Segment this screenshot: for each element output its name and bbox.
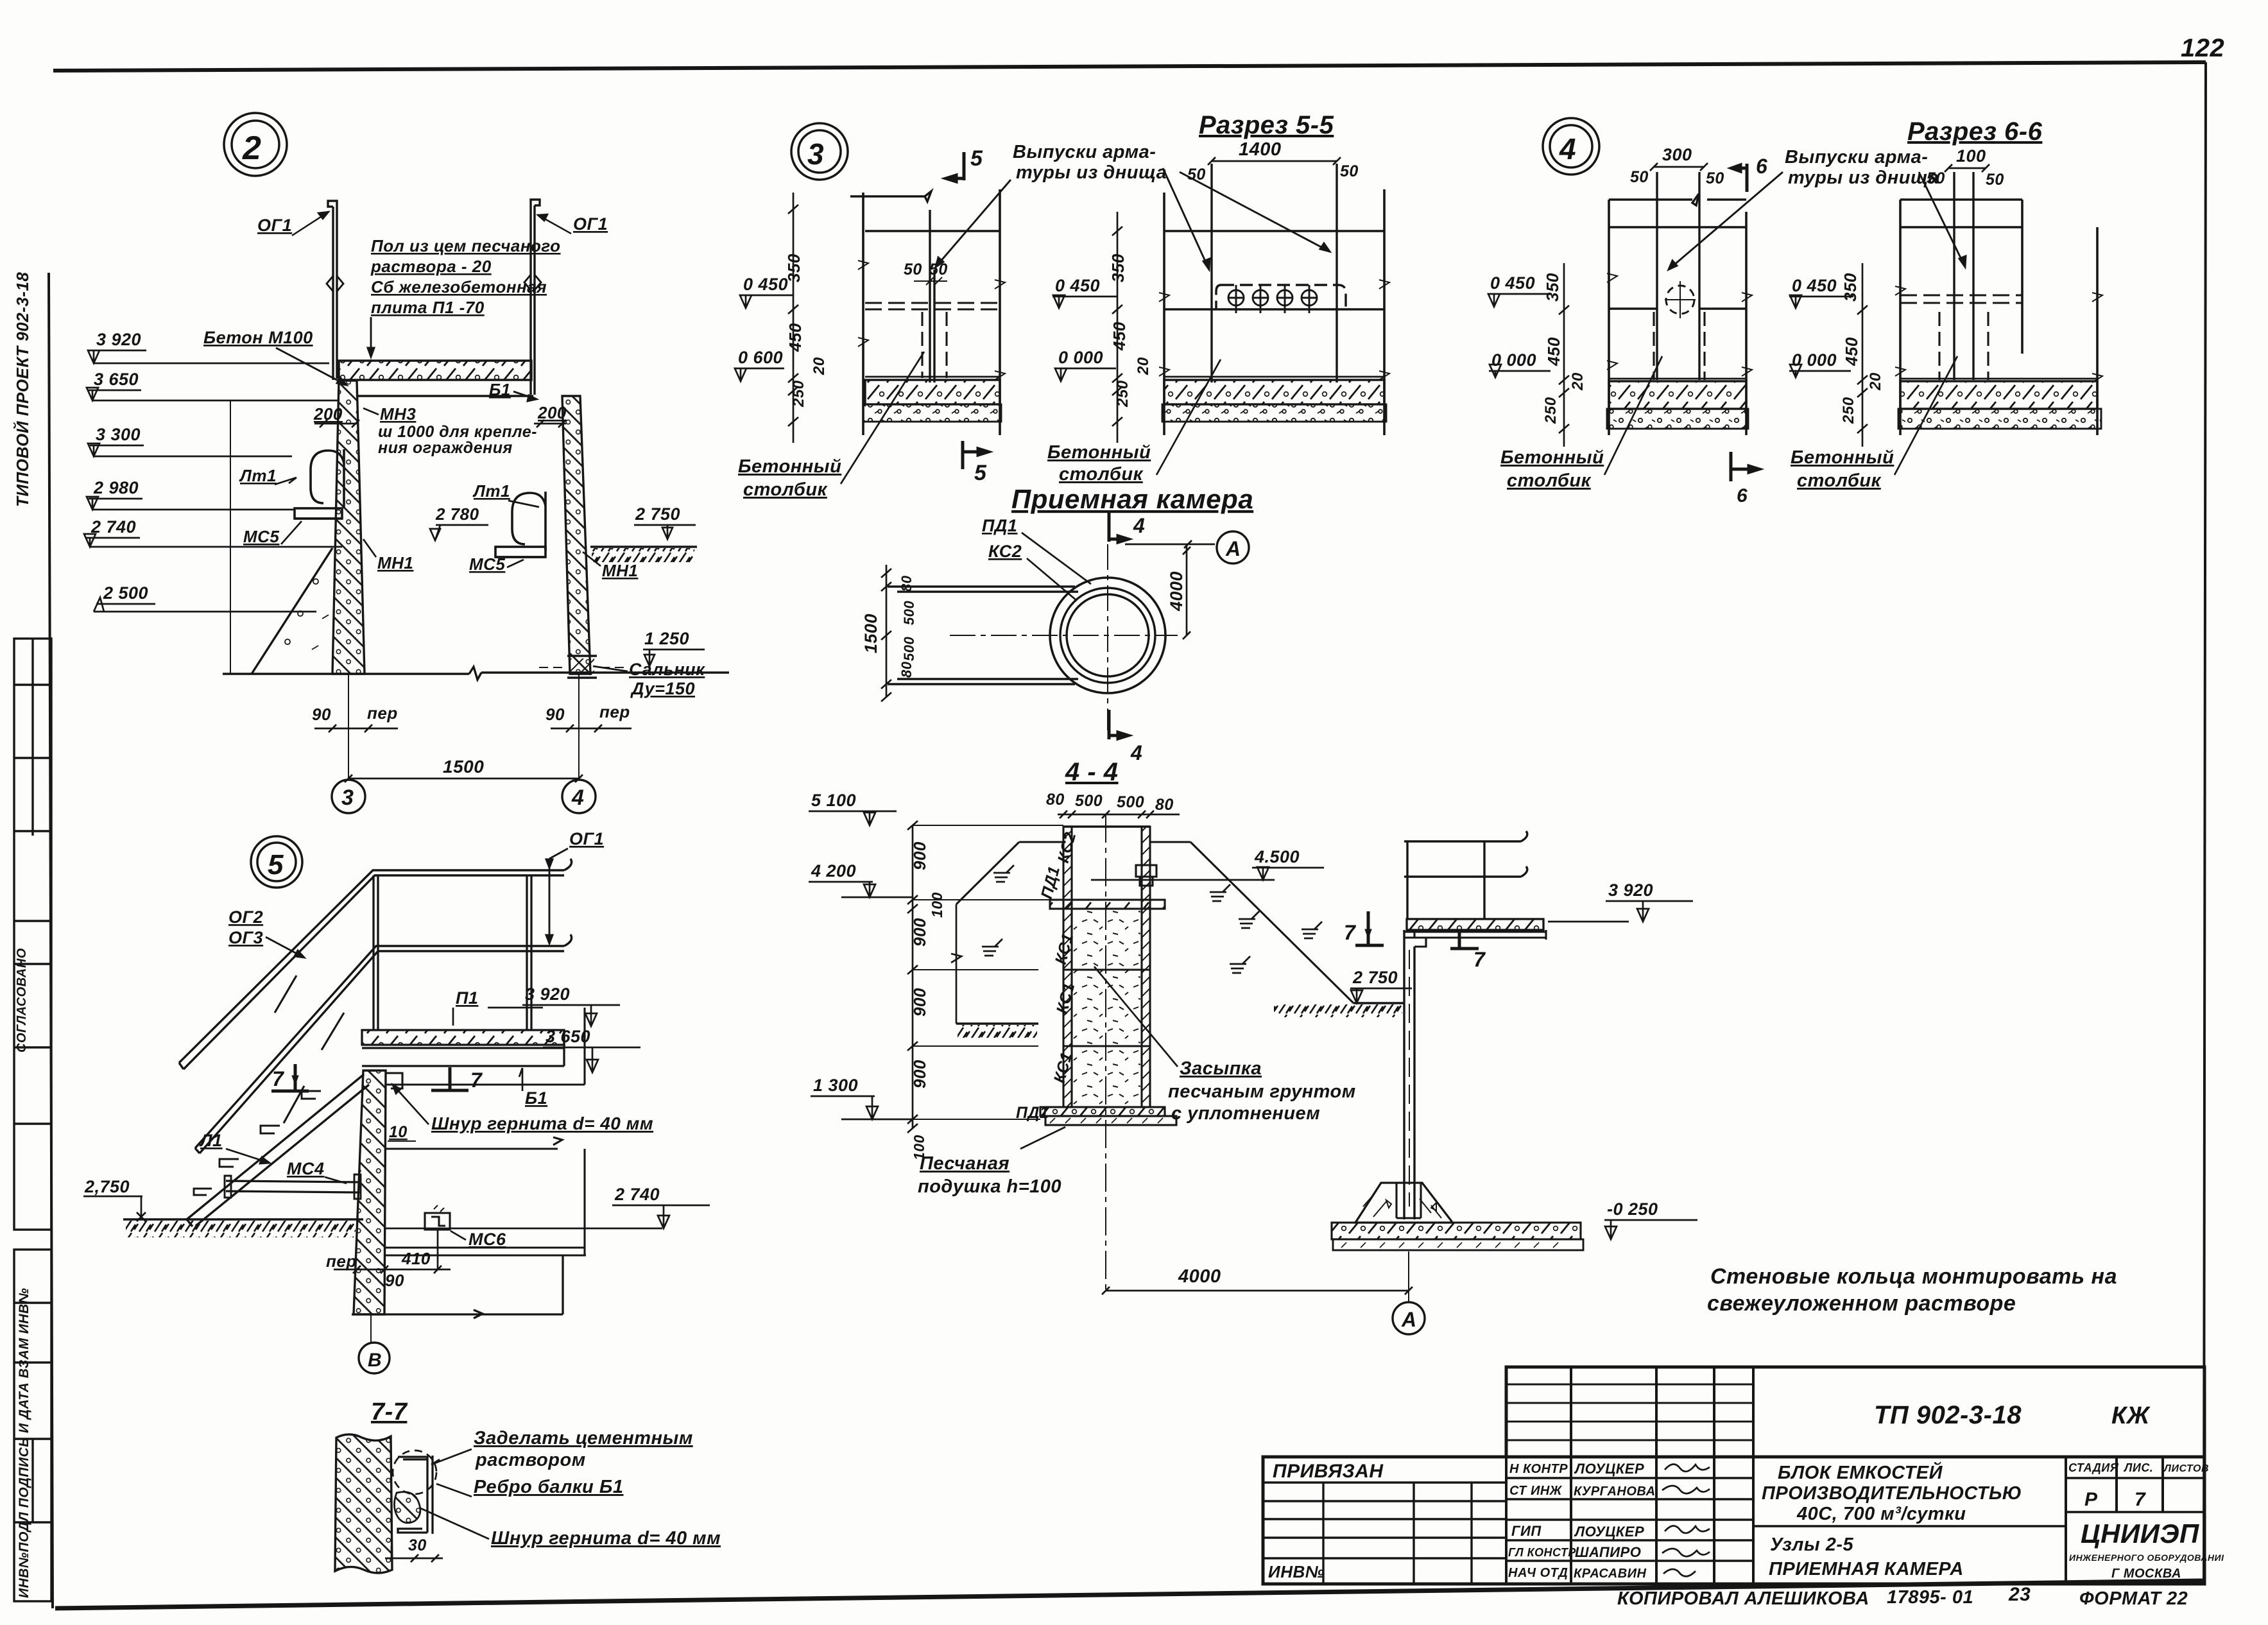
6-6 left: level line 0450 and bolt dashed bbox=[1609, 307, 1746, 309]
svg-text:ш 1000 для крепле-: ш 1000 для крепле- bbox=[378, 423, 537, 441]
svg-text:ЛОУЦКЕР: ЛОУЦКЕР bbox=[1574, 1524, 1644, 1540]
svg-text:350: 350 bbox=[1108, 254, 1128, 282]
section mark 4 bottom bbox=[1109, 710, 1128, 739]
wall corbel detail bbox=[386, 1073, 402, 1088]
4-4 shaft axis bbox=[1105, 814, 1106, 1291]
svg-text:раствором: раствором bbox=[475, 1450, 586, 1470]
svg-text:Шнур гернита d= 40 мм: Шнур гернита d= 40 мм bbox=[491, 1528, 721, 1549]
svg-text:туры из днища: туры из днища bbox=[1788, 168, 1939, 188]
svg-text:Бетонный: Бетонный bbox=[1500, 447, 1604, 468]
svg-text:250: 250 bbox=[790, 380, 807, 408]
svg-text:П1: П1 bbox=[456, 988, 478, 1008]
svg-text:122: 122 bbox=[2181, 34, 2224, 62]
svg-text:0 450: 0 450 bbox=[1490, 273, 1535, 293]
railing posts detail5 bbox=[374, 875, 531, 1030]
6-6 left: section mark 6 top bbox=[1731, 164, 1747, 192]
svg-text:ТП 902-3-18: ТП 902-3-18 bbox=[1874, 1401, 2022, 1429]
svg-text:ОГ3: ОГ3 bbox=[228, 928, 263, 947]
svg-text:плита П1 -70: плита П1 -70 bbox=[371, 298, 485, 317]
section mark 7 right detail5 bbox=[431, 1067, 468, 1090]
svg-text:4 200: 4 200 bbox=[811, 861, 856, 881]
title block upper table bbox=[1506, 1367, 2204, 1457]
svg-text:КУРГАНОВА: КУРГАНОВА bbox=[1574, 1484, 1656, 1499]
svg-text:2 980: 2 980 bbox=[93, 478, 139, 497]
svg-text:410: 410 bbox=[401, 1249, 431, 1268]
svg-text:Л1: Л1 bbox=[199, 1131, 223, 1150]
platform railing posts bbox=[1407, 841, 1484, 919]
6-6 left: concrete post dashed bbox=[1654, 312, 1705, 380]
5-5 left: dashed level 0450 bbox=[865, 303, 999, 309]
5-5 left: floor slab bbox=[865, 376, 1000, 378]
4-4 right ground line bbox=[1353, 1002, 1405, 1004]
node circle 3 bbox=[791, 123, 848, 180]
svg-text:50: 50 bbox=[929, 261, 948, 279]
svg-text:Пол из цем песчаного: Пол из цем песчаного bbox=[371, 236, 561, 255]
svg-text:Бетонный: Бетонный bbox=[1047, 442, 1151, 463]
post ОГ1 left bbox=[328, 201, 337, 380]
axis circle 4 bbox=[562, 780, 596, 813]
4-4 left ground line bbox=[956, 1022, 1038, 1024]
svg-text:7: 7 bbox=[1344, 921, 1357, 944]
svg-text:20: 20 bbox=[811, 357, 828, 375]
svg-text:17895- 01: 17895- 01 bbox=[1887, 1587, 1973, 1608]
stage cells bbox=[2068, 1461, 2209, 1474]
5-5 right: floor slab bbox=[1164, 376, 1384, 378]
svg-text:раствора - 20: раствора - 20 bbox=[370, 257, 492, 276]
svg-text:Н КОНТР: Н КОНТР bbox=[1509, 1462, 1568, 1476]
4-4 bottom slab ПД1 bbox=[1040, 1107, 1165, 1116]
svg-text:50: 50 bbox=[1706, 169, 1724, 187]
svg-text:3: 3 bbox=[807, 137, 824, 171]
svg-text:5 100: 5 100 bbox=[811, 791, 856, 810]
svg-text:2 500: 2 500 bbox=[103, 583, 148, 603]
plan axes dash-dot bbox=[1107, 544, 1108, 730]
svg-text:Выпуски арма-: Выпуски арма- bbox=[1013, 142, 1156, 162]
platform slab hatched bbox=[1407, 919, 1543, 930]
svg-text:5: 5 bbox=[974, 461, 987, 485]
svg-text:ИНВ№: ИНВ№ bbox=[1268, 1562, 1325, 1581]
4-4 chain tie lines bbox=[913, 825, 1063, 1119]
4-4 shaft top edge bbox=[1063, 825, 1150, 827]
left margin stamp table upper bbox=[14, 639, 51, 1230]
5-5 left: concrete post dashed bbox=[922, 312, 947, 378]
svg-text:7-7: 7-7 bbox=[371, 1398, 408, 1425]
svg-text:90: 90 bbox=[385, 1271, 404, 1290]
svg-text:КОПИРОВАЛ АЛЕШИКОВА: КОПИРОВАЛ АЛЕШИКОВА bbox=[1617, 1588, 1869, 1609]
svg-text:200: 200 bbox=[537, 403, 567, 422]
svg-text:Б1: Б1 bbox=[525, 1088, 547, 1108]
svg-text:23: 23 bbox=[2008, 1584, 2031, 1605]
svg-text:ПРИВЯЗАН: ПРИВЯЗАН bbox=[1273, 1461, 1384, 1482]
svg-text:450: 450 bbox=[786, 323, 805, 352]
ground line detail5 bbox=[123, 1218, 363, 1221]
section mark 5 bottom bbox=[963, 441, 988, 469]
4-4 left excavation line bbox=[951, 904, 961, 1024]
svg-text:0 000: 0 000 bbox=[1058, 348, 1103, 367]
svg-text:4000: 4000 bbox=[1178, 1266, 1221, 1287]
svg-text:ния ограждения: ния ограждения bbox=[378, 439, 513, 457]
сальник in wall bbox=[567, 656, 597, 678]
svg-text:1500: 1500 bbox=[861, 614, 881, 653]
svg-text:6: 6 bbox=[1756, 155, 1767, 178]
platform floor slab hatched bbox=[362, 1030, 564, 1045]
svg-text:песчаным грунтом: песчаным грунтом bbox=[1168, 1081, 1356, 1102]
svg-text:3 300: 3 300 bbox=[96, 425, 141, 444]
ladder hook left Лт1 bbox=[295, 449, 344, 519]
5-5 left: dim chain bbox=[793, 193, 795, 443]
svg-text:900: 900 bbox=[910, 841, 929, 870]
svg-text:Песчаная: Песчаная bbox=[920, 1153, 1009, 1174]
6-6 right: rebars bbox=[1954, 172, 1973, 380]
slab П1 hatched bbox=[339, 361, 531, 380]
post flag right bbox=[524, 275, 541, 290]
svg-text:ФОРМАТ 22: ФОРМАТ 22 bbox=[2079, 1588, 2188, 1609]
svg-text:ИНЖЕНЕРНОГО ОБОРУДОВАНИI: ИНЖЕНЕРНОГО ОБОРУДОВАНИI bbox=[2069, 1552, 2224, 1563]
svg-text:ТИПОВОЙ ПРОЕКТ 902-3-18: ТИПОВОЙ ПРОЕКТ 902-3-18 bbox=[13, 272, 32, 507]
svg-text:ЦНИИЭП: ЦНИИЭП bbox=[2081, 1518, 2199, 1549]
svg-text:2 750: 2 750 bbox=[1352, 968, 1398, 987]
6-6 right: dim chain bbox=[1862, 263, 1864, 447]
svg-text:4: 4 bbox=[1133, 514, 1145, 537]
svg-text:МН1: МН1 bbox=[377, 553, 413, 572]
svg-text:МС4: МС4 bbox=[287, 1159, 325, 1178]
svg-text:пер: пер bbox=[367, 703, 398, 723]
4-4 left fill plateau bbox=[1019, 841, 1063, 843]
4-4 sand fill speckles inside shaft bbox=[1073, 909, 1140, 1105]
svg-text:90: 90 bbox=[312, 705, 331, 724]
svg-text:200: 200 bbox=[313, 404, 343, 424]
svg-text:20: 20 bbox=[1867, 372, 1884, 391]
7-7 sealant blob hatched bbox=[394, 1492, 420, 1523]
svg-text:МН1: МН1 bbox=[602, 561, 638, 580]
svg-text:40С, 700 м³/сутки: 40С, 700 м³/сутки bbox=[1796, 1504, 1966, 1524]
sheet bottom border bbox=[55, 1581, 2204, 1608]
platform beam Б1 bbox=[362, 1030, 564, 1066]
svg-text:80: 80 bbox=[1155, 796, 1174, 814]
svg-text:ЛИСТОВ: ЛИСТОВ bbox=[2163, 1463, 2209, 1474]
signatures squiggles bbox=[1662, 1464, 1710, 1576]
svg-text:1500: 1500 bbox=[443, 757, 484, 777]
svg-text:ОГ1: ОГ1 bbox=[573, 214, 608, 234]
4-4 shaft right wall bbox=[1142, 827, 1150, 1107]
7-7 channel profile bbox=[398, 1456, 433, 1534]
4-4 right slope bbox=[1190, 842, 1353, 1003]
svg-text:80: 80 bbox=[1046, 791, 1065, 809]
svg-text:7: 7 bbox=[470, 1069, 483, 1092]
svg-text:ГЛ КОНСТР: ГЛ КОНСТР bbox=[1508, 1546, 1576, 1559]
svg-text:ИНВ№ПОДЛ ПОДПИСЬ И ДАТА ВЗАМ И: ИНВ№ПОДЛ ПОДПИСЬ И ДАТА ВЗАМ ИНВ№ bbox=[17, 1288, 31, 1598]
5-5 left: wall lines bbox=[863, 189, 1000, 435]
svg-text:4: 4 bbox=[1130, 741, 1142, 764]
strut МС4 bbox=[226, 1181, 359, 1192]
svg-text:с уплотнением: с уплотнением bbox=[1171, 1103, 1320, 1124]
wall left hatched bbox=[332, 381, 365, 674]
5-5 left: top lines bbox=[850, 191, 1000, 231]
svg-text:50: 50 bbox=[904, 261, 922, 279]
leader Бетон М100 bbox=[276, 348, 347, 385]
4-4 level 4.500 line bbox=[1091, 879, 1275, 881]
svg-text:МС6: МС6 bbox=[468, 1230, 506, 1249]
plan channel walls bbox=[888, 587, 1078, 684]
svg-text:3 920: 3 920 bbox=[1608, 881, 1653, 900]
6-6 left: rebars bbox=[1657, 172, 1699, 380]
svg-text:100: 100 bbox=[929, 892, 945, 918]
svg-text:ОГ1: ОГ1 bbox=[257, 216, 292, 235]
svg-text:столбик: столбик bbox=[743, 479, 828, 500]
leader from note to slab bbox=[368, 317, 374, 357]
svg-text:НАЧ ОТД: НАЧ ОТД bbox=[1508, 1566, 1568, 1580]
sheet right border bbox=[2204, 62, 2206, 1581]
svg-text:7: 7 bbox=[1473, 948, 1486, 971]
svg-text:900: 900 bbox=[910, 1060, 929, 1088]
svg-text:МС5: МС5 bbox=[243, 527, 279, 546]
title block main frame bbox=[1263, 1457, 2204, 1584]
svg-text:5: 5 bbox=[268, 849, 284, 881]
svg-text:Сб железобетонная: Сб железобетонная bbox=[371, 277, 547, 297]
leader Б1 bbox=[513, 391, 537, 401]
6-6 left: walls bbox=[1609, 200, 1746, 435]
grid circle B bbox=[359, 1343, 390, 1373]
svg-text:ПД1: ПД1 bbox=[982, 516, 1017, 535]
6-6 left: top lines bbox=[1609, 194, 1746, 227]
svg-text:СОГЛАСОВАНО: СОГЛАСОВАНО bbox=[15, 948, 29, 1053]
footing pedestal bbox=[1355, 1183, 1452, 1223]
6-6 right: floor slab bbox=[1900, 378, 2097, 380]
post flag left bbox=[327, 276, 343, 291]
svg-text:3: 3 bbox=[341, 786, 354, 810]
4-4 ring joints bbox=[1063, 970, 1150, 1046]
svg-text:Г МОСКВА: Г МОСКВА bbox=[2111, 1567, 2181, 1581]
svg-text:А: А bbox=[1401, 1308, 1417, 1331]
svg-text:столбик: столбик bbox=[1797, 470, 1882, 491]
svg-text:Бетонный: Бетонный bbox=[738, 456, 841, 477]
svg-text:столбик: столбик bbox=[1059, 464, 1144, 485]
4-4 grass marks bbox=[982, 865, 1322, 973]
svg-text:80: 80 bbox=[898, 575, 915, 592]
axis circle 3 bbox=[332, 780, 365, 813]
svg-text:20: 20 bbox=[1135, 357, 1152, 375]
5-5 right: anchor plate dashed with bolts bbox=[1216, 285, 1346, 309]
svg-text:Разрез 5-5: Разрез 5-5 bbox=[1199, 111, 1334, 139]
6-6 right: top lines bbox=[1900, 200, 2022, 227]
grid circle A bottom bbox=[1408, 1251, 1409, 1303]
svg-text:3 920: 3 920 bbox=[96, 330, 141, 349]
svg-text:50: 50 bbox=[1187, 166, 1206, 184]
leader to right rebars bbox=[1163, 168, 1210, 270]
svg-text:ЛИС.: ЛИС. bbox=[2123, 1461, 2153, 1474]
stair stringer Л1 bbox=[187, 1074, 369, 1226]
svg-text:КРАСАВИН: КРАСАВИН bbox=[1574, 1567, 1647, 1581]
node circle 5 bbox=[251, 836, 302, 888]
5-5 left: rebar bbox=[930, 210, 934, 383]
svg-text:500: 500 bbox=[901, 637, 917, 661]
svg-text:СТАДИЯ: СТАДИЯ bbox=[2068, 1461, 2119, 1474]
stair mid rail ОГ3 bbox=[195, 946, 564, 1153]
line to circle A bbox=[1125, 540, 1215, 548]
4-4 dim chain left bbox=[912, 825, 914, 1128]
svg-text:ОГ2: ОГ2 bbox=[228, 907, 263, 927]
svg-text:7: 7 bbox=[272, 1067, 285, 1090]
chamber wall detail5 bbox=[354, 1070, 386, 1314]
chamber bottom edge detail5 bbox=[352, 1255, 563, 1318]
svg-text:0 450: 0 450 bbox=[1055, 276, 1100, 295]
platform top rail bbox=[1404, 831, 1527, 841]
section mark 7 right bbox=[1450, 932, 1479, 949]
column bbox=[1404, 930, 1414, 1219]
6-6 right: concrete post dashed bbox=[1939, 312, 1988, 380]
svg-text:свежеуложенном растворе: свежеуложенном растворе bbox=[1707, 1291, 2016, 1316]
4-4 right fill plateau bbox=[1150, 841, 1190, 843]
7-7 wall piece hatched bbox=[335, 1434, 392, 1573]
svg-text:ОГ1: ОГ1 bbox=[569, 829, 604, 848]
5-5 right: top line bbox=[1164, 230, 1384, 232]
section mark 5 top bbox=[946, 152, 964, 182]
svg-text:50: 50 bbox=[1340, 162, 1359, 180]
svg-text:Б1: Б1 bbox=[489, 380, 511, 399]
4-4 anchor on right wall bbox=[1136, 865, 1156, 886]
svg-text:0 450: 0 450 bbox=[743, 275, 788, 294]
4-4 sand cushion plate bbox=[1045, 1116, 1176, 1125]
column bracket bbox=[1414, 930, 1426, 947]
svg-text:Стеновые кольца монтироват: Стеновые кольца монтировать на bbox=[1710, 1264, 2117, 1289]
svg-text:0 600: 0 600 bbox=[738, 348, 783, 367]
svg-text:250: 250 bbox=[1114, 380, 1131, 408]
svg-text:пер: пер bbox=[599, 702, 630, 721]
svg-text:МН3: МН3 bbox=[380, 404, 416, 424]
5-5 right: walls bbox=[1164, 189, 1384, 435]
6-6 right: walls bbox=[1900, 200, 2097, 435]
svg-text:ПРОИЗВОДИТЕЛЬНОСТЬЮ: ПРОИЗВОДИТЕЛЬНОСТЬЮ bbox=[1762, 1483, 2022, 1504]
svg-text:900: 900 bbox=[910, 918, 929, 947]
svg-text:ГИП: ГИП bbox=[1511, 1523, 1542, 1539]
svg-text:Р: Р bbox=[2084, 1489, 2098, 1510]
svg-text:столбик: столбик bbox=[1507, 470, 1592, 491]
svg-text:КС2: КС2 bbox=[988, 542, 1022, 561]
svg-text:0 000: 0 000 bbox=[1792, 350, 1837, 370]
svg-text:4000: 4000 bbox=[1167, 571, 1186, 612]
svg-text:50: 50 bbox=[1630, 168, 1649, 186]
wall right hatched bbox=[562, 396, 590, 674]
leader ОГ1 right bbox=[538, 214, 571, 234]
svg-text:Узлы 2-5: Узлы 2-5 bbox=[1770, 1535, 1853, 1555]
svg-text:50: 50 bbox=[1927, 169, 1945, 187]
plan chamber circles bbox=[1050, 578, 1165, 693]
svg-text:20: 20 bbox=[1569, 372, 1586, 391]
leader to left rebar bbox=[936, 180, 1011, 267]
rail S hooks bbox=[564, 859, 572, 946]
extension vertical at left of walls bbox=[230, 400, 231, 674]
svg-text:Приемная камера: Приемная камера bbox=[1011, 484, 1253, 514]
svg-text:250: 250 bbox=[1840, 397, 1857, 424]
svg-text:пер: пер bbox=[326, 1251, 357, 1271]
svg-text:30: 30 bbox=[408, 1536, 427, 1554]
svg-text:80: 80 bbox=[898, 661, 915, 678]
4-4 shaft left wall bbox=[1063, 827, 1072, 1107]
svg-text:СТ ИНЖ: СТ ИНЖ bbox=[1509, 1484, 1563, 1498]
svg-text:ШАПИРО: ШАПИРО bbox=[1575, 1544, 1641, 1560]
svg-text:ПРИЕМНАЯ КАМЕРА: ПРИЕМНАЯ КАМЕРА bbox=[1769, 1559, 1964, 1579]
svg-text:Лт1: Лт1 bbox=[472, 481, 510, 501]
svg-text:Лт1: Лт1 bbox=[239, 466, 277, 485]
svg-text:2,750: 2,750 bbox=[84, 1177, 130, 1196]
svg-text:Выпуски арма-: Выпуски арма- bbox=[1785, 147, 1928, 168]
svg-text:350: 350 bbox=[1841, 273, 1860, 302]
svg-text:Ребро балки Б1: Ребро балки Б1 bbox=[474, 1477, 624, 1497]
footing lower course bbox=[1333, 1239, 1583, 1250]
svg-text:А: А bbox=[1225, 537, 1241, 560]
sheet top border bbox=[53, 62, 2206, 71]
svg-text:Шнур гернита d= 40 мм: Шнур гернита d= 40 мм bbox=[431, 1113, 653, 1133]
svg-text:КЖ: КЖ bbox=[2111, 1402, 2151, 1429]
post ОГ1 right bbox=[531, 200, 540, 395]
svg-text:500: 500 bbox=[901, 601, 917, 625]
beam line Б1 under slab bbox=[357, 395, 533, 397]
svg-text:Засыпка: Засыпка bbox=[1180, 1058, 1262, 1079]
7-7 mortar zone dashed bbox=[393, 1450, 436, 1494]
svg-text:подушка h=100: подушка h=100 bbox=[918, 1176, 1061, 1197]
svg-text:-0 250: -0 250 bbox=[1607, 1199, 1658, 1219]
svg-text:1 300: 1 300 bbox=[813, 1076, 858, 1095]
node circle 2 bbox=[224, 113, 287, 176]
svg-text:1400: 1400 bbox=[1239, 139, 1282, 160]
svg-text:100: 100 bbox=[1956, 146, 1986, 166]
svg-text:2 740: 2 740 bbox=[90, 517, 136, 537]
svg-text:450: 450 bbox=[1544, 337, 1563, 366]
6-6 left: dim chain bbox=[1563, 263, 1565, 447]
6-6 right: dashed levels bbox=[1900, 295, 2022, 303]
svg-text:450: 450 bbox=[1842, 337, 1861, 366]
section mark 4 top bbox=[1109, 512, 1128, 542]
svg-text:7: 7 bbox=[2135, 1489, 2146, 1510]
berm slope with concrete dots bbox=[252, 548, 332, 674]
svg-text:4 - 4: 4 - 4 bbox=[1065, 758, 1119, 786]
svg-text:1 250: 1 250 bbox=[644, 629, 689, 648]
sheet left border bbox=[49, 273, 53, 1608]
6-6 left: floor slab bbox=[1609, 378, 1746, 380]
svg-text:5: 5 bbox=[970, 146, 983, 171]
svg-text:300: 300 bbox=[1662, 145, 1692, 164]
node circle 4 bbox=[1543, 118, 1599, 175]
project name bbox=[1762, 1461, 2022, 1579]
svg-text:250: 250 bbox=[1542, 397, 1559, 424]
grid circle A plan bbox=[1217, 531, 1249, 563]
svg-text:350: 350 bbox=[1543, 273, 1562, 302]
ground line right of wall bbox=[590, 546, 697, 548]
6-6 left: section mark 6 bottom bbox=[1731, 452, 1759, 481]
4-4 left slope bbox=[956, 842, 1019, 904]
svg-text:3 920: 3 920 bbox=[525, 984, 570, 1004]
stair braces bbox=[275, 976, 344, 1123]
svg-text:0 000: 0 000 bbox=[1491, 350, 1536, 370]
svg-text:0 450: 0 450 bbox=[1792, 276, 1837, 295]
ladder hook right Лт1 bbox=[495, 492, 546, 557]
svg-text:Бетон М100: Бетон М100 bbox=[203, 328, 313, 347]
svg-text:2 780: 2 780 bbox=[435, 504, 479, 524]
svg-text:3 650: 3 650 bbox=[94, 370, 139, 389]
svg-text:Разрез 6-6: Разрез 6-6 bbox=[1907, 117, 2043, 146]
footing base slab hatched bbox=[1332, 1223, 1581, 1239]
chamber interior lines detail5 bbox=[384, 1008, 586, 1255]
svg-text:500: 500 bbox=[1117, 793, 1144, 811]
axis lines to circles bbox=[348, 674, 579, 780]
axis line to circle B bbox=[370, 1314, 372, 1343]
svg-text:500: 500 bbox=[1075, 792, 1103, 810]
svg-text:90: 90 bbox=[546, 705, 565, 724]
svg-text:900: 900 bbox=[910, 988, 929, 1017]
platform beams bbox=[1404, 930, 1546, 940]
plan left dim chain bbox=[886, 565, 888, 697]
leaders 6-6 bbox=[1669, 172, 1783, 270]
